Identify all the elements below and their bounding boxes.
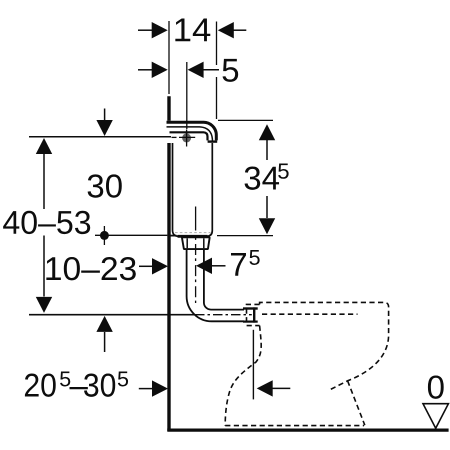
cistern tank body fill <box>173 134 213 237</box>
dim 30: top arrow <box>104 109 106 123</box>
cistern tank rim <box>170 132 208 140</box>
dim 7.5 label <box>231 253 246 276</box>
dim 40-53: line and arrows <box>43 154 45 209</box>
top reference line <box>29 136 171 138</box>
toilet bowl dashed outline <box>225 302 388 425</box>
floor line <box>167 429 448 432</box>
cistern tank inner bottom faint line <box>175 232 211 234</box>
dim 7.5: arrow <box>211 265 226 267</box>
pipe end cap <box>253 307 255 322</box>
dot reference line to wall <box>95 234 167 236</box>
dim 34.5 label <box>245 166 279 189</box>
dim 34.5: top arrow <box>259 124 275 140</box>
zero level triangle <box>423 404 448 429</box>
dim 40-53 label <box>3 211 90 234</box>
dim 5 label <box>223 59 239 82</box>
dim 5: left arrow <box>138 69 153 71</box>
cistern lid white fill <box>167 121 218 143</box>
zero level label <box>428 375 444 398</box>
wall <box>167 96 170 431</box>
dim 10-23 label <box>46 257 135 280</box>
flush pipe outline <box>187 249 244 321</box>
pipe end sleeve <box>243 307 258 309</box>
flush pipe elbow (white filled over dashes) <box>187 249 254 321</box>
cistern tank right bottom corner <box>207 141 213 236</box>
cistern lid lip bottom <box>208 140 218 142</box>
flush valve nut <box>182 237 210 249</box>
dim 14: left extension line <box>168 21 170 94</box>
dim 34.5: top tick <box>218 119 273 121</box>
dim 20.5-30.5 label <box>25 373 56 396</box>
pipe horizontal center line <box>29 314 195 316</box>
dim 14 label <box>175 19 210 42</box>
dim 30 label <box>88 174 122 197</box>
fixing screw <box>182 133 191 142</box>
dim 5: right arrow <box>202 69 219 71</box>
dim 10-23: bottom arrow <box>104 332 106 352</box>
cistern tank left edge <box>173 134 179 237</box>
cistern tank bottom edge <box>178 235 208 238</box>
fixing screw crosshair <box>172 130 196 147</box>
cistern lid inner line <box>167 127 213 142</box>
dim 34.5: bottom tick <box>217 235 273 237</box>
wc outlet axis line <box>252 330 254 400</box>
flush valve / pipe vertical center line <box>195 207 197 231</box>
reference dot <box>100 231 109 240</box>
nut facets <box>187 238 204 248</box>
reference dot ticks <box>103 226 105 245</box>
dot reference line stub under tank <box>171 235 177 237</box>
dim 5: extension line <box>186 62 188 129</box>
dim 34.5: bottom arrow <box>259 218 275 234</box>
dim 20.5-30.5: right arrow <box>271 387 290 389</box>
dim 14: right arrow <box>232 29 246 31</box>
dim 14: left arrow <box>138 29 153 31</box>
wc inlet spigot dashed outline <box>247 304 260 325</box>
dim 20.5-30.5: left arrow <box>139 388 154 390</box>
dim 10-23 arrow to wall <box>139 265 154 267</box>
cistern lid outer edge <box>167 122 217 140</box>
dim 14: right extension line <box>216 22 218 66</box>
